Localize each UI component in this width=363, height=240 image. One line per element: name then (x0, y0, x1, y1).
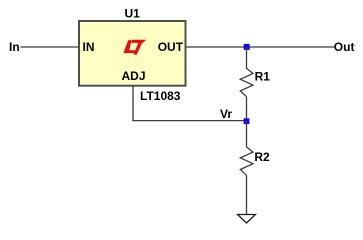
resistor R1 (240, 68, 253, 96)
wire node to R1 (246, 47, 248, 69)
pin label IN (83, 40, 95, 54)
wire ADJ to Vr node (132, 120, 246, 122)
pin label ADJ (121, 69, 145, 83)
LT logo T glyph (131, 40, 147, 55)
svg-text:LT1083: LT1083 (140, 89, 181, 103)
value label LT1083 (140, 89, 181, 103)
wire R2 to ground (246, 175, 248, 214)
svg-text:R1: R1 (255, 69, 271, 83)
ground (238, 215, 256, 224)
svg-text:Vr: Vr (220, 107, 232, 121)
junction node at Vr net (244, 118, 250, 124)
svg-text:Out: Out (334, 40, 355, 54)
wire ADJ pin down (132, 86, 134, 121)
wire R1 to Vr node (246, 97, 248, 121)
R2 reference label (254, 150, 270, 164)
regulator U1 body (79, 21, 186, 86)
node Out net label (334, 40, 355, 54)
R1 reference label (255, 69, 271, 83)
node Vr net label (220, 107, 232, 121)
node In label (9, 40, 20, 54)
svg-text:OUT: OUT (158, 40, 184, 54)
wire OUT pin to Out (186, 46, 335, 48)
junction node at Out net (244, 44, 250, 50)
wire input In to IN pin (21, 46, 80, 48)
svg-text:ADJ: ADJ (121, 69, 145, 83)
U1 reference designator (125, 6, 141, 20)
svg-text:R2: R2 (254, 150, 270, 164)
svg-text:U1: U1 (125, 6, 141, 20)
resistor R2 (240, 147, 253, 175)
pin label OUT (158, 40, 184, 54)
svg-text:In: In (9, 40, 20, 54)
wire Vr node to R2 (246, 121, 248, 147)
LT logo L glyph (123, 40, 137, 53)
svg-text:IN: IN (83, 40, 95, 54)
